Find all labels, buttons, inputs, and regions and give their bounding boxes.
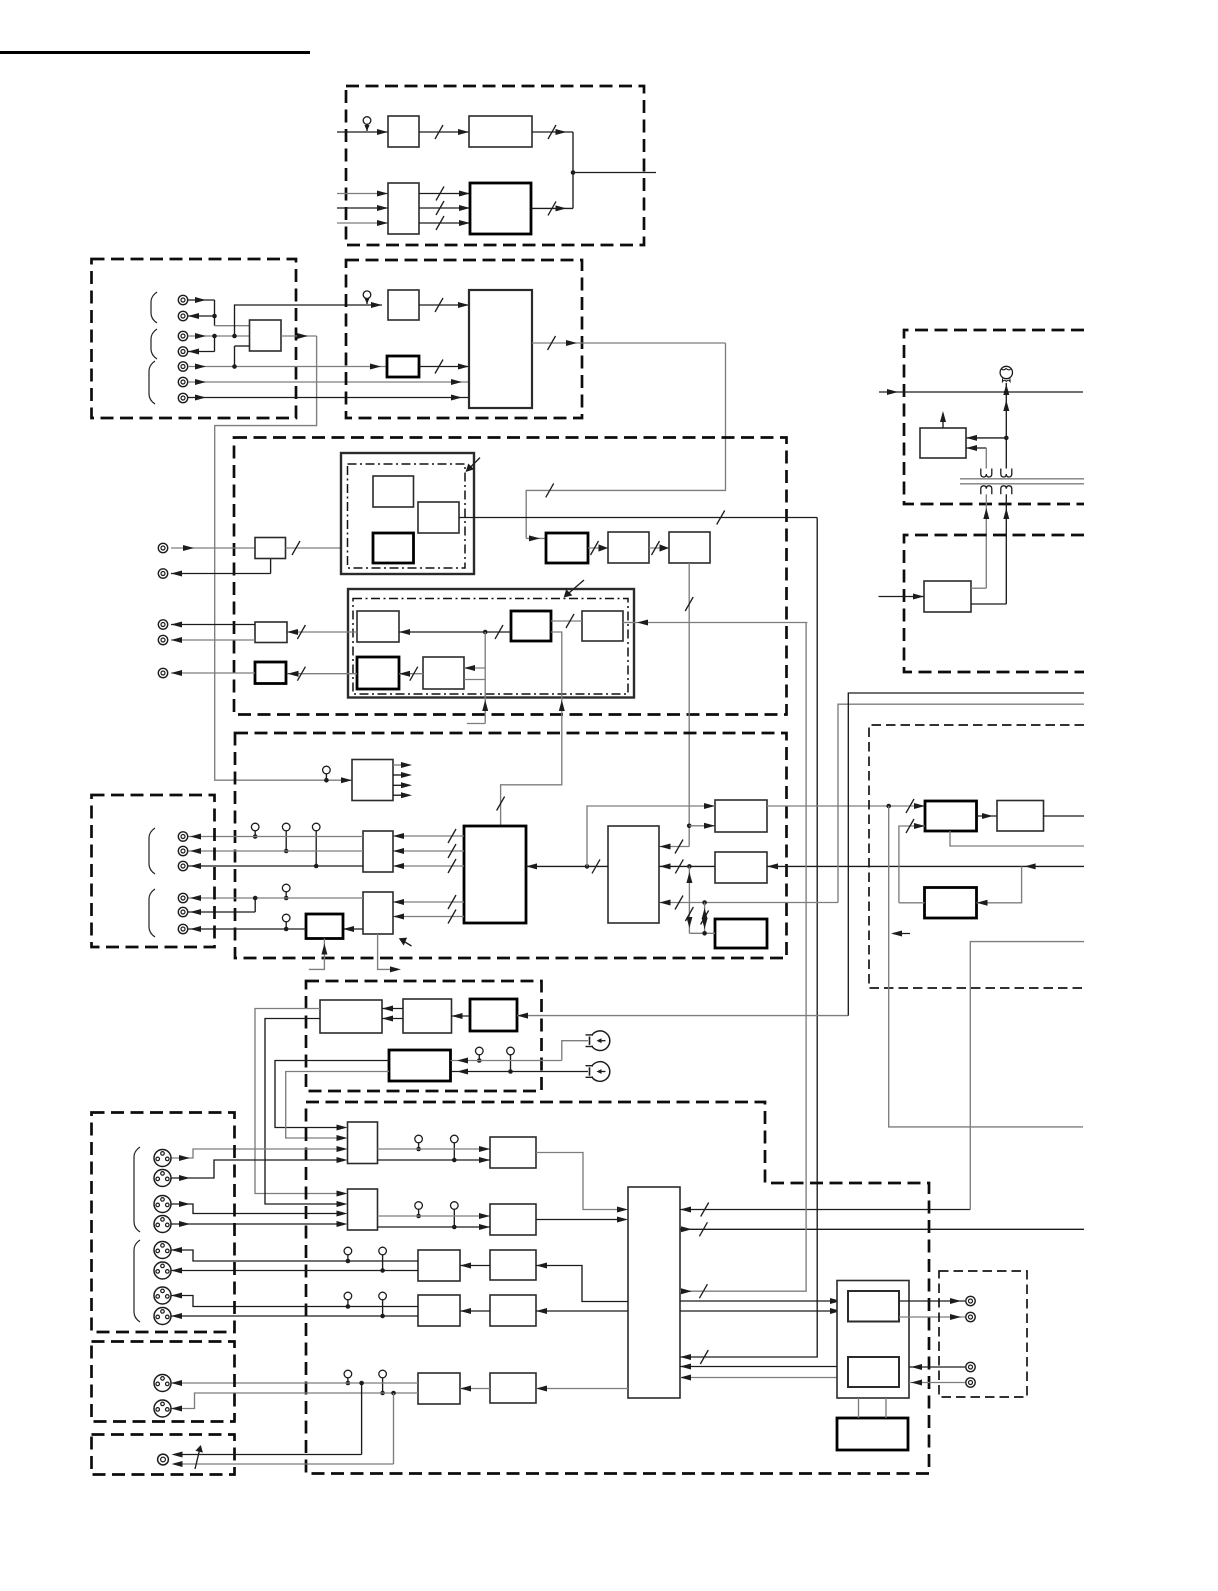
jack RCA3: [966, 1362, 975, 1371]
wire J3 in: [188, 333, 250, 339]
block U-K: [373, 533, 414, 563]
jack JM5: [178, 907, 187, 916]
bus branch to BK: [689, 823, 715, 829]
bus U-N out: [286, 541, 353, 555]
wire AE3 out a: [171, 1380, 418, 1386]
block U-BG: [306, 914, 343, 939]
wire AG to AF1: [536, 1263, 628, 1302]
block U-AG master: [628, 1187, 680, 1398]
wire AF3 to AE3: [460, 1386, 490, 1392]
pot AA 2: [451, 1135, 459, 1162]
dashed module box 2: [346, 260, 582, 418]
jack J5: [178, 362, 187, 371]
wire AG out right 1: [680, 1222, 1084, 1236]
wire BD out 2: [286, 1072, 389, 1142]
pointer arrow BF: [399, 938, 412, 946]
block U-AD: [490, 1204, 536, 1235]
block U-M2: [669, 532, 710, 563]
title rule: [0, 51, 310, 54]
block U-W1 reg: [920, 428, 966, 458]
wire BE out 1: [188, 834, 363, 840]
wire BF to BG: [343, 926, 363, 932]
wire U out: [171, 670, 255, 676]
wire sec R down: [1003, 494, 1009, 604]
block U-Q: [582, 611, 623, 641]
wire AG to AH0 2: [680, 1308, 848, 1314]
connector XLR1: [154, 1150, 171, 1167]
wire X1 tap out: [950, 831, 1084, 846]
jack J10 out: [158, 620, 167, 629]
block U-R: [357, 657, 399, 689]
wire P to Q: [551, 614, 582, 628]
dashed section box 6: [306, 1102, 929, 1474]
wire AH1 to AG 2: [680, 1375, 848, 1381]
block U-E2: [388, 290, 419, 320]
jack J6: [178, 377, 187, 386]
block U-F2 converter: [469, 290, 532, 408]
block U-W2 psu: [924, 581, 971, 612]
jack RCA4: [966, 1378, 975, 1387]
block U-BI rec select: [352, 760, 393, 801]
pot row BE 2: [282, 823, 290, 853]
dashed section box 4: [235, 733, 787, 958]
block U-S: [423, 657, 464, 689]
pot row BG: [282, 914, 290, 931]
phone jack contact 1: [586, 1031, 610, 1051]
wire SW-H tap: [235, 346, 250, 367]
digital jack J9 out: [158, 559, 270, 579]
block U-BM: [715, 919, 767, 948]
block U-Y: [925, 888, 977, 919]
wire into BC: [517, 1013, 848, 1019]
wire AD out: [536, 1217, 628, 1223]
block U-U: [255, 662, 286, 684]
dashed section box 3: [234, 438, 787, 715]
jack JM3: [178, 861, 187, 870]
lamp symbol: [1000, 366, 1012, 395]
bus BH to BE 1: [393, 829, 464, 843]
pot AE2 b: [379, 1292, 387, 1318]
connector XLR9: [154, 1375, 171, 1392]
block U-BK: [715, 800, 767, 832]
bus L to L2: [588, 541, 608, 555]
block U-AI: [837, 1418, 908, 1450]
pot AB 1: [415, 1202, 423, 1219]
wire X1 in2: [899, 819, 925, 903]
dashed connector box RCA: [939, 1271, 1027, 1397]
block U-N rcv: [255, 538, 286, 559]
arrow W1 top: [940, 411, 946, 428]
dashed module box 5: [306, 981, 542, 1091]
wire BA out 2: [265, 1019, 348, 1208]
wire node to pot line: [235, 302, 383, 336]
wire BC to BB: [452, 1013, 471, 1019]
jack J7: [178, 393, 187, 402]
dashed connector box TL: [92, 259, 297, 418]
pot AA 1: [415, 1135, 423, 1151]
jack J1: [178, 295, 187, 304]
phone jack contact 2: [586, 1062, 610, 1082]
pot AE1 a: [344, 1247, 352, 1263]
bus BH to BF 1: [393, 895, 464, 909]
T1 winding sec R: [1001, 486, 1012, 495]
block U-BL: [715, 852, 767, 883]
wire BG out: [188, 926, 306, 932]
wire AG to AF2: [536, 1308, 628, 1314]
connector XLR10: [154, 1400, 171, 1417]
wire O to T: [287, 625, 357, 639]
dashed connector box ML: [92, 795, 215, 947]
wire T out b: [171, 637, 255, 643]
block U-BA: [320, 1000, 382, 1033]
block U-L dac: [546, 533, 588, 563]
wire AB to AD 1: [378, 1213, 491, 1219]
block U-O: [357, 611, 399, 642]
wire J4 out: [188, 336, 215, 355]
wire J7 in: [188, 395, 469, 401]
wire SW-H out to record bus: [215, 333, 352, 783]
block U-BF: [363, 892, 393, 934]
wire sec L down: [983, 494, 989, 588]
wire XLR2 in: [171, 1157, 348, 1181]
block U-BD: [389, 1050, 451, 1081]
wire AF1 to AE1: [460, 1263, 490, 1269]
block U-L2: [608, 532, 649, 563]
connector XLR7: [154, 1287, 171, 1304]
wire J1 in: [188, 297, 250, 326]
jack JM1: [178, 832, 187, 841]
node out wire 1: [573, 172, 656, 174]
block U-AH1: [848, 1357, 899, 1387]
block U-BE: [363, 831, 393, 872]
module frame DSP1: [341, 453, 474, 574]
dashdot inner DSP2: [353, 599, 628, 695]
vert bus line a: [838, 704, 1084, 902]
wire XLR1 in: [171, 1146, 348, 1161]
wire Y to X1 link: [899, 902, 925, 904]
wire U-B1 out: [532, 125, 575, 175]
wire P tap down: [497, 632, 565, 826]
wire AG in right: [680, 1203, 970, 1217]
dashed connector box XLR-in: [92, 1113, 235, 1333]
block U-BJ: [608, 826, 659, 923]
connector XLR6: [154, 1262, 171, 1279]
wire AE1 out b: [171, 1268, 418, 1274]
pointer arrow DSP2: [564, 580, 584, 598]
wire to W1 in1: [966, 435, 1006, 441]
wire phones b: [172, 1393, 394, 1467]
wire T out a: [171, 622, 255, 628]
level arrow phones: [195, 1445, 203, 1469]
wire AH0 out 1: [899, 1298, 965, 1304]
block U-AB: [348, 1189, 378, 1230]
pot row BF 1: [282, 884, 290, 900]
block U-A1: [388, 116, 419, 147]
wire AH0 out 2: [899, 1314, 965, 1320]
wire into U-A1: [337, 129, 388, 135]
bracket pair 1: [151, 292, 157, 323]
transformer T1 core: [960, 479, 1084, 484]
block SW-H: [250, 320, 282, 351]
module frame DSP2: [348, 589, 634, 698]
wire AG to AF3: [536, 1386, 628, 1392]
block U-BB: [403, 999, 452, 1033]
node bus to I/K: [350, 489, 418, 551]
block U-AH0: [848, 1291, 899, 1322]
bus BH to BE 3: [393, 859, 464, 873]
wire BF out 1: [188, 895, 363, 901]
jack JM2: [178, 846, 187, 855]
bus L2 to M2: [649, 541, 669, 555]
wire XLR3 in: [171, 1201, 348, 1217]
phones jack: [158, 1454, 169, 1465]
connector XLR5: [154, 1242, 171, 1259]
wire phones a: [172, 1383, 362, 1458]
block U-AE2: [418, 1295, 460, 1326]
wire AA to AC 2: [378, 1157, 491, 1163]
block U-AE1: [418, 1250, 460, 1281]
dashed module box 1: [346, 86, 644, 245]
bracket XLR 1: [134, 1147, 140, 1232]
long line to BL: [767, 863, 1084, 869]
bracket XLR 2: [134, 1240, 140, 1322]
block U-B1: [469, 116, 532, 147]
wire XLR4 in: [171, 1221, 348, 1227]
bus BH to BE 2: [393, 844, 464, 858]
wires into U-C1: [337, 191, 388, 227]
bus BH to BF 2: [393, 910, 464, 924]
psu main line: [879, 389, 1083, 395]
bus U-F2 out wrap: [526, 336, 725, 541]
wire U-D1 out: [531, 173, 573, 216]
wire AE1 out a: [171, 1247, 418, 1261]
jack J2: [178, 311, 187, 320]
wire X2 out: [1044, 815, 1085, 817]
wire AG to AH0 1: [680, 1298, 848, 1304]
block U-BH mixer: [464, 826, 526, 923]
jack J4: [178, 347, 187, 356]
wire W2 out2: [971, 603, 1006, 605]
wire AC out: [536, 1153, 628, 1213]
wire J2 out: [188, 313, 215, 319]
dashed connector box phones: [92, 1435, 235, 1475]
stub BG down: [309, 939, 328, 970]
block U-AA: [348, 1122, 378, 1164]
wire AH frame to AI: [859, 1398, 887, 1418]
wire AB to AD 2: [378, 1224, 491, 1230]
wire P to O: [399, 625, 511, 639]
wire BJ in1: [0, 0, 1, 1]
bus slash U-A1 out: [419, 125, 469, 139]
bidir bus BM b: [701, 903, 709, 936]
jack RCA2: [966, 1312, 975, 1321]
T1 winding pri L: [981, 469, 992, 478]
wire RCA in 2: [909, 1380, 965, 1386]
wire offpage down to AG: [970, 942, 1084, 1210]
wire phones loop 2: [451, 1069, 589, 1075]
wire BF out 2: [188, 898, 255, 915]
jack JM6: [178, 924, 187, 933]
psu vert line: [1003, 392, 1009, 469]
dashed section box amp: [869, 725, 1084, 988]
wire R to U: [288, 667, 358, 681]
dashed psu box 1: [904, 330, 1084, 504]
block U-C1: [388, 183, 419, 234]
wire RCA in 1: [909, 1364, 965, 1370]
module frame AH: [837, 1281, 909, 1399]
wire J6 in: [188, 379, 469, 385]
wire phones loop 1: [451, 1041, 589, 1064]
wire AA to AC 1: [378, 1146, 491, 1152]
block U-T: [255, 622, 287, 643]
wire BB to BA 2: [382, 1016, 403, 1022]
connector XLR8: [154, 1308, 171, 1325]
pot AB 2: [451, 1202, 459, 1230]
digital jack J8 in: [158, 543, 255, 552]
vert bus line b: [848, 693, 1084, 1016]
pot AE2 a: [344, 1292, 352, 1309]
wire into W2: [879, 594, 925, 600]
block U-D1: [470, 183, 531, 234]
jack J12 out: [158, 668, 167, 677]
pot phones 1: [476, 1047, 484, 1063]
connector XLR3: [154, 1196, 171, 1213]
wire BK out: [767, 799, 925, 813]
control pot VR2: [363, 291, 371, 304]
wire BE out 2: [188, 848, 363, 854]
pointer arrow DSP1: [466, 458, 480, 472]
wire AH1 to AG 1: [680, 1364, 848, 1370]
wire BJ in3 gray: [660, 896, 839, 910]
pot AE1 b: [379, 1247, 387, 1273]
block U-G2: [387, 356, 419, 377]
wire to W1 in2: [966, 445, 986, 469]
block U-X2: [997, 801, 1044, 832]
wire W2 out1: [971, 587, 986, 589]
pot phones 2: [507, 1047, 515, 1074]
wire J5 in: [188, 364, 387, 370]
wire AE3 out b: [171, 1391, 418, 1412]
bracket group 3: [149, 361, 155, 404]
bracket ML 2: [149, 889, 155, 937]
control pot VR1: [363, 117, 371, 131]
block U-AF1: [490, 1250, 536, 1280]
bus U-E2 out: [419, 298, 469, 312]
dashed connector box XLR-out: [92, 1342, 235, 1422]
wire AG out right 2: [680, 623, 806, 1299]
wire Y feed: [977, 866, 1022, 905]
block U-AE3: [418, 1373, 460, 1404]
dashdot inner DSP1: [348, 464, 466, 568]
bracket ML 1: [149, 828, 155, 874]
wire BA out 1: [255, 1009, 348, 1197]
jack JM4: [178, 893, 187, 902]
wire AF2 to AE2: [460, 1308, 490, 1314]
bus M2 down: [660, 563, 694, 854]
wire Q feed: [623, 620, 807, 626]
block U-AF2: [490, 1295, 536, 1326]
bracket pair 2: [151, 329, 157, 359]
wire AE2 out a: [171, 1293, 418, 1307]
pot AE3 b: [379, 1370, 387, 1395]
pot row BE 3: [312, 823, 320, 868]
pot AE3 a: [344, 1370, 352, 1385]
arrow stub mute: [891, 931, 910, 937]
bus U-G2 out: [419, 360, 469, 374]
jack J3: [178, 331, 187, 340]
vert line from BK node: [889, 806, 1083, 1127]
wire BB to BA 1: [382, 1006, 403, 1012]
wire BL to BJ: [660, 859, 716, 873]
block U-AC: [490, 1137, 536, 1168]
bus wires U-C1 to U-D1: [419, 187, 470, 231]
pot VR-BI: [323, 766, 331, 782]
T1 winding pri R: [1001, 469, 1012, 478]
wire tap to BK in1: [587, 803, 715, 866]
wire BJ to BH: [526, 859, 608, 873]
wire BD out 1: [275, 1061, 389, 1131]
wire BE out 3: [188, 863, 363, 869]
wire S to R: [399, 667, 423, 681]
block U-X1: [925, 801, 977, 831]
block U-P: [511, 611, 551, 641]
bus U-J out long: [459, 511, 817, 1365]
wire X1 to X2: [977, 813, 998, 819]
connector XLR4: [154, 1216, 171, 1233]
jack RCA1: [966, 1296, 975, 1305]
dashed psu box 2: [904, 535, 1084, 672]
block U-BC: [470, 999, 517, 1031]
block U-AF3: [490, 1373, 536, 1403]
arrows U-BI out: [393, 762, 412, 798]
pot row BE 1: [251, 823, 259, 839]
wire node to S: [464, 632, 488, 724]
block U-J: [418, 502, 459, 533]
block U-I: [373, 476, 414, 507]
wire AE2 out b: [171, 1313, 418, 1319]
connector XLR2: [154, 1170, 171, 1187]
bidir bus BM a: [685, 866, 715, 933]
T1 winding sec L: [981, 486, 992, 495]
jack J11 out: [158, 635, 167, 644]
stub BF down: [378, 934, 401, 972]
